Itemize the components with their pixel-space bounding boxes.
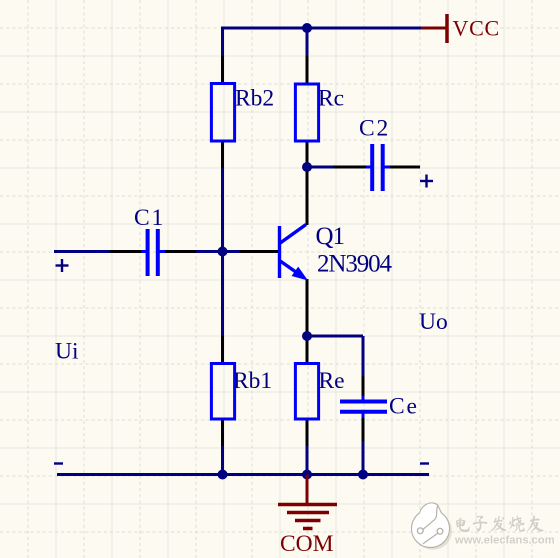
svg-text:C1: C1 [134,205,165,231]
svg-text:Ce: Ce [389,394,419,420]
svg-text:VCC: VCC [453,16,500,41]
svg-text:Ui: Ui [55,339,79,365]
svg-text:Q1: Q1 [316,223,345,250]
svg-text:C2: C2 [359,116,390,142]
svg-text:www.elecfans.com: www.elecfans.com [454,535,555,547]
svg-text:Re: Re [319,368,345,394]
svg-text:2N3904: 2N3904 [317,251,393,278]
svg-text:Rb1: Rb1 [233,368,272,394]
svg-text:Rc: Rc [318,86,344,112]
svg-text:Rb2: Rb2 [235,86,274,112]
svg-text:COM: COM [280,531,334,557]
svg-text:Uo: Uo [419,309,448,335]
